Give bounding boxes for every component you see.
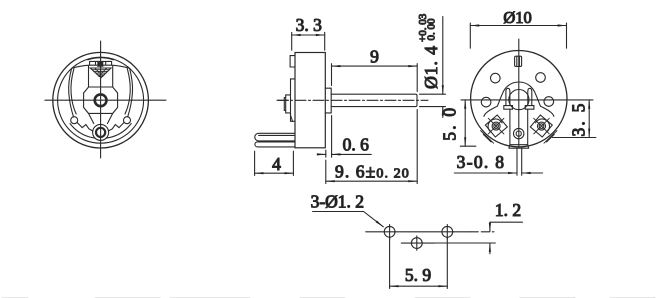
dimension Ø10 — [470, 23, 566, 48]
bottom edge artifact strip — [2, 297, 655, 298]
terminal wire left — [516, 148, 518, 175]
back view horizontal centerline — [461, 99, 593, 101]
svg-text:Ø10: Ø10 — [503, 8, 531, 27]
right solder pad cross ticks — [534, 118, 550, 134]
right pad strap — [544, 131, 557, 144]
hole right — [544, 97, 554, 107]
dimension 1.2 — [435, 222, 523, 254]
dimension 0.6 — [318, 116, 372, 158]
dimension 4 — [255, 151, 294, 175]
rotor bottom arc right segment — [106, 124, 131, 139]
hub octagon — [84, 87, 118, 113]
svg-text:3-0. 8: 3-0. 8 — [457, 152, 506, 172]
terminal wire right — [521, 148, 523, 175]
svg-text:3. 3: 3. 3 — [296, 15, 323, 35]
front view inner circle — [58, 57, 144, 143]
shaft outline with rounded tip — [331, 94, 417, 106]
svg-text:3. 5: 3. 5 — [569, 101, 589, 136]
left solder pad grommet rings — [488, 119, 502, 132]
shaft centerline — [277, 99, 428, 101]
svg-text:9. 6±0. 20: 9. 6±0. 20 — [335, 162, 410, 182]
bottom bearing inner circle — [96, 128, 105, 137]
bottom bearing outer circle — [93, 124, 109, 140]
svg-text:9: 9 — [370, 47, 379, 67]
svg-text:5. 0: 5. 0 — [439, 106, 459, 141]
svg-text:3-Ø1. 2: 3-Ø1. 2 — [311, 192, 364, 212]
mounting centerline holes 1-3 — [366, 231, 471, 233]
shaft hole ring — [95, 94, 107, 106]
left wing outer curve — [69, 68, 74, 116]
dimension Ø1.4 with tolerance — [420, 17, 446, 118]
trunk right line — [527, 109, 529, 145]
right wing top edge — [112, 65, 130, 68]
left wing inner curve — [71, 69, 76, 114]
dimension 9 — [332, 64, 418, 92]
leader 3-Ø1.2 — [313, 212, 384, 227]
side view body rectangle — [295, 53, 325, 148]
right wing outer curve — [128, 68, 133, 116]
svg-text:0. 00: 0. 00 — [425, 18, 437, 41]
left solder pad square — [485, 115, 507, 137]
right solder pad grommet rings — [536, 119, 550, 132]
brush dome bell — [497, 82, 540, 106]
brush clip right — [528, 88, 532, 105]
bottom bearing circles — [514, 128, 524, 138]
front view vertical centerline — [100, 41, 102, 158]
brush clip left foot — [504, 106, 513, 110]
rear bearing boss step 3 — [284, 98, 285, 111]
trunk left line — [509, 109, 511, 145]
terminal pin lower — [255, 142, 295, 147]
terminal pin upper inner line — [259, 134, 295, 136]
hole top-right — [536, 73, 546, 83]
right wing inner curve — [125, 69, 130, 114]
mounting hole 3 — [442, 226, 453, 237]
hole left — [481, 97, 491, 107]
back view outer circle — [471, 50, 567, 146]
terminal pin upper — [255, 133, 295, 141]
dimension 5.9 — [390, 237, 448, 289]
back view vertical centerline — [518, 39, 520, 148]
dimension 3.5 — [552, 100, 596, 138]
mounting hole 1 — [384, 226, 395, 237]
left pad strap — [481, 131, 494, 144]
right pivot circle — [124, 117, 131, 124]
bottom notch left — [77, 123, 93, 131]
svg-text:0. 6: 0. 6 — [343, 135, 370, 155]
magnet V outline — [90, 68, 111, 78]
rear bearing boss step 1 — [291, 79, 296, 121]
right hub lower connector — [107, 113, 112, 123]
rear bearing boss step 2 — [286, 95, 291, 113]
bottom notch right — [108, 123, 124, 131]
left solder pad cross ticks — [488, 118, 504, 134]
commutator circle — [509, 90, 529, 110]
dimension 3.3 — [292, 32, 325, 50]
crown filled cell — [97, 62, 103, 67]
svg-text:1. 2: 1. 2 — [495, 200, 521, 220]
hole top-left — [491, 73, 501, 83]
magnet V hatch — [92, 68, 110, 76]
right solder pad square — [530, 115, 552, 137]
crown ladder top — [90, 61, 112, 65]
left wing top edge — [72, 65, 90, 68]
brush clip right foot — [525, 106, 534, 110]
svg-text:5. 9: 5. 9 — [405, 265, 432, 285]
top mounting tab — [290, 56, 295, 67]
left skirt to pad — [484, 106, 497, 116]
left hub lower connector — [89, 113, 94, 123]
rear boss centerline — [278, 99, 289, 101]
right skirt to pad — [541, 106, 554, 116]
top slot — [515, 56, 522, 66]
front view outer circle — [53, 52, 149, 148]
front view horizontal centerline — [45, 99, 166, 101]
left pivot circle — [71, 117, 78, 124]
crown arc — [88, 58, 114, 60]
dimension 9.6±0.20 — [326, 110, 417, 184]
right crown connector — [112, 66, 114, 87]
svg-text:Ø1. 4: Ø1. 4 — [421, 45, 441, 89]
left crown connector — [88, 66, 90, 87]
rotor bottom arc left segment — [70, 124, 95, 139]
brush clip left — [506, 88, 510, 105]
mounting hole 2 — [411, 238, 422, 249]
front boss — [325, 88, 331, 113]
svg-text:4: 4 — [272, 154, 281, 174]
dimension 5.0 — [460, 100, 476, 146]
dimension 3-0.8 — [454, 172, 542, 174]
trunk bottom plate — [509, 145, 529, 149]
